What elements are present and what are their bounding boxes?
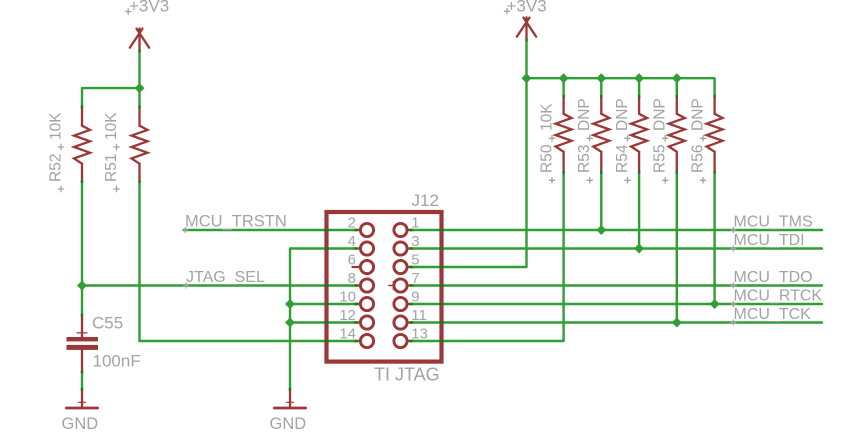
svg-text:DNP: DNP	[689, 98, 706, 131]
svg-text:11: 11	[411, 307, 427, 324]
svg-text:3: 3	[411, 233, 419, 250]
svg-text:R52: R52	[47, 154, 64, 182]
svg-text:R55: R55	[652, 145, 669, 173]
svg-text:R51: R51	[103, 154, 120, 182]
svg-text:R50: R50	[538, 144, 555, 173]
svg-text:TI JTAG: TI JTAG	[374, 364, 440, 384]
svg-text:DNP: DNP	[614, 98, 631, 131]
svg-text:JTAG_SEL: JTAG_SEL	[186, 269, 265, 286]
svg-text:R53: R53	[576, 145, 593, 173]
svg-text:MCU_TRSTN: MCU_TRSTN	[185, 213, 287, 231]
svg-text:14: 14	[339, 326, 356, 343]
svg-text:6: 6	[348, 252, 356, 269]
svg-text:1: 1	[411, 215, 419, 232]
svg-text:13: 13	[411, 326, 428, 343]
svg-text:4: 4	[348, 233, 356, 250]
svg-text:2: 2	[348, 215, 356, 232]
svg-text:R56: R56	[689, 145, 706, 173]
svg-text:9: 9	[411, 289, 419, 306]
svg-text:12: 12	[339, 307, 356, 324]
svg-text:+3V3: +3V3	[129, 0, 169, 15]
svg-text:R54: R54	[614, 144, 631, 173]
svg-text:+3V3: +3V3	[507, 0, 547, 15]
svg-text:GND: GND	[270, 415, 307, 433]
svg-text:C55: C55	[92, 314, 123, 333]
svg-text:5: 5	[411, 252, 419, 269]
svg-text:100nF: 100nF	[93, 352, 141, 371]
svg-text:MCU_TDI: MCU_TDI	[734, 232, 805, 249]
svg-text:10K: 10K	[538, 103, 555, 131]
svg-text:MCU_TMS: MCU_TMS	[734, 214, 813, 231]
svg-text:GND: GND	[62, 415, 99, 433]
svg-text:MCU_RTCK: MCU_RTCK	[734, 288, 823, 305]
svg-text:10K: 10K	[47, 112, 64, 140]
svg-text:MCU_TCK: MCU_TCK	[734, 306, 812, 323]
svg-text:8: 8	[348, 270, 356, 287]
svg-text:MCU_TDO: MCU_TDO	[734, 269, 813, 286]
svg-text:10K: 10K	[103, 112, 120, 140]
svg-text:DNP: DNP	[652, 98, 669, 131]
svg-text:10: 10	[339, 289, 356, 306]
svg-text:7: 7	[411, 270, 419, 287]
svg-text:J12: J12	[412, 191, 439, 210]
svg-text:DNP: DNP	[576, 98, 593, 131]
